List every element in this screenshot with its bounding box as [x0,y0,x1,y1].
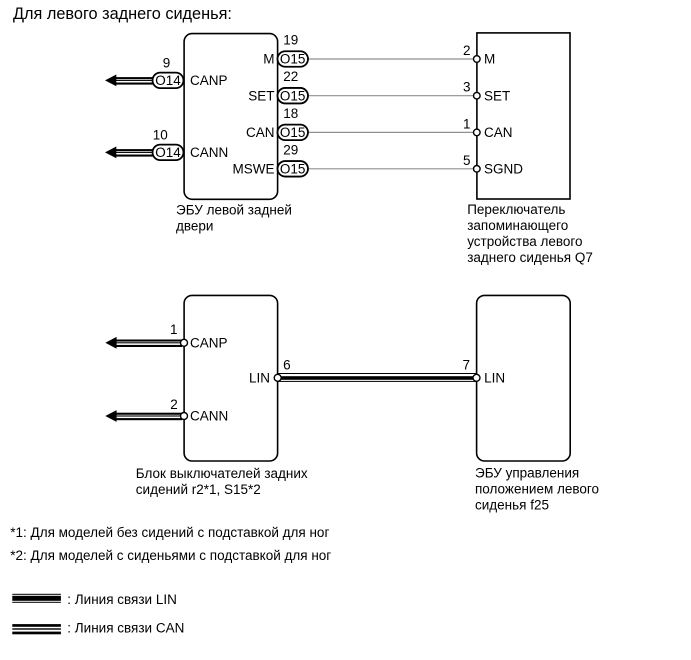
svg-text:6: 6 [283,358,291,373]
CAN arrow CANP (top) [105,75,153,87]
pin 1 CAN of Q7 [463,116,513,140]
ECU block: left rear door ECU [184,34,278,200]
svg-text:Для левого заднего сиденья:: Для левого заднего сиденья: [13,5,232,23]
svg-text:LIN: LIN [484,370,505,385]
svg-text:M: M [484,52,495,67]
svg-text:сидений r2*1, S15*2: сидений r2*1, S15*2 [136,482,261,497]
legend CAN swatch [12,624,61,634]
svg-text:: Линия связи CAN: : Линия связи CAN [67,620,184,635]
svg-text:22: 22 [283,69,298,84]
legend LIN swatch [12,594,61,603]
svg-text:19: 19 [283,33,298,48]
svg-text:Переключатель: Переключатель [467,202,565,217]
svg-text:*2: Для моделей с сиденьями с: *2: Для моделей с сиденьями с подставкой… [10,548,331,563]
CAN arrow CANN (bottom) [105,410,182,422]
svg-text:1: 1 [170,322,178,337]
svg-text:1: 1 [463,116,471,131]
wire M: O15 to pin 2 [306,58,477,60]
pin 2 M of Q7 [463,43,495,67]
svg-text:O15: O15 [280,52,306,67]
svg-text:CANN: CANN [190,145,228,160]
wire CAN: O15 to pin 1 [306,131,477,133]
wire SET: O15 to pin 3 [306,95,477,97]
connector O14 pin 10 CANN [153,128,229,161]
svg-text:5: 5 [463,153,471,168]
svg-text:запоминающего: запоминающего [467,218,568,233]
svg-text:2: 2 [170,397,178,412]
switch block Q7: memory switch [477,33,570,199]
svg-text:SET: SET [484,88,510,103]
svg-text:CAN: CAN [484,125,513,140]
svg-text:Блок выключателей задних: Блок выключателей задних [136,466,308,481]
connector O15 pin 29 MSWE [233,142,309,176]
svg-text:18: 18 [283,106,298,121]
svg-text:заднего сиденья Q7: заднего сиденья Q7 [467,250,593,265]
svg-text:CAN: CAN [246,125,275,140]
svg-text:O15: O15 [280,161,306,176]
pin 3 SET of Q7 [463,80,510,104]
svg-text:O14: O14 [155,73,181,88]
seat position ECU f25 [477,295,571,461]
svg-text:LIN: LIN [249,370,270,385]
pin 1 CANP of switch block [170,322,228,350]
svg-text:O14: O14 [155,145,181,160]
pin 6 LIN of switch block [249,358,291,386]
pin 5 SGND of Q7 [463,153,523,177]
LIN line between blocks [278,373,477,382]
svg-text:положением левого: положением левого [475,482,599,497]
CAN arrow CANP (bottom) [105,337,182,349]
svg-text:CANN: CANN [190,409,228,424]
svg-text:CANP: CANP [190,73,228,88]
svg-text:O15: O15 [280,125,306,140]
pin 2 CANN of switch block [170,397,228,423]
CAN arrow CANN (top) [105,147,153,159]
svg-text:: Линия связи LIN: : Линия связи LIN [67,592,177,607]
wire MSWE: O15 to pin 5 [306,168,477,170]
svg-text:10: 10 [153,128,168,143]
connector O14 pin 9 CANP [153,56,228,89]
svg-text:SET: SET [248,88,274,103]
rear seat switch block r2/S15 [184,295,278,461]
svg-text:*1: Для моделей без сидений с: *1: Для моделей без сидений с подставкой… [10,525,329,540]
connector O15 pin 18 CAN [246,106,308,140]
connector O15 pin 19 M [263,33,308,67]
svg-text:сиденья f25: сиденья f25 [475,498,549,513]
svg-text:2: 2 [463,43,471,58]
svg-text:двери: двери [176,219,213,234]
connector O15 pin 22 SET [248,69,308,103]
svg-text:9: 9 [163,56,171,71]
svg-text:7: 7 [462,358,470,373]
svg-text:ЭБУ левой задней: ЭБУ левой задней [176,203,292,218]
svg-text:O15: O15 [280,88,306,103]
pin 7 LIN of ECU f25 [462,358,505,386]
svg-text:ЭБУ управления: ЭБУ управления [475,466,579,481]
svg-text:устройства левого: устройства левого [467,234,582,249]
svg-text:3: 3 [463,80,471,95]
svg-text:M: M [263,52,274,67]
svg-text:CANP: CANP [190,335,228,350]
svg-text:MSWE: MSWE [233,161,275,176]
svg-text:SGND: SGND [484,161,523,176]
svg-text:29: 29 [283,142,298,157]
